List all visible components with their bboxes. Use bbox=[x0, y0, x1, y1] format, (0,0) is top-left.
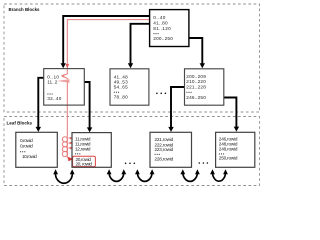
svg-text:210..220: 210..220 bbox=[186, 79, 206, 84]
branch block 2 bbox=[110, 69, 149, 105]
leaf block 4 bbox=[216, 132, 255, 167]
svg-text:223,rowid: 223,rowid bbox=[155, 147, 174, 152]
svg-text:0,rowid: 0,rowid bbox=[20, 138, 33, 143]
wire root to branch2 bbox=[131, 24, 150, 64]
dots between branch2 and branch3 bbox=[156, 93, 166, 95]
red search path root to branch1 bbox=[67, 20, 149, 65]
svg-text:12,rowid: 12,rowid bbox=[75, 146, 91, 151]
wire branch3 to leaf3 bbox=[171, 87, 185, 128]
svg-text:228,rowid: 228,rowid bbox=[155, 156, 174, 161]
red coil on leaf2 bbox=[62, 137, 67, 142]
svg-text:20, rowid: 20, rowid bbox=[76, 161, 93, 166]
svg-text:248,rowid: 248,rowid bbox=[219, 147, 238, 152]
root block bbox=[150, 10, 189, 47]
svg-text:81..120: 81..120 bbox=[153, 26, 171, 31]
wire branch1 to leaf2 bbox=[84, 82, 89, 128]
svg-text:Leaf Blocks: Leaf Blocks bbox=[7, 121, 33, 126]
svg-text:32..40: 32..40 bbox=[47, 96, 61, 101]
svg-text:10,rowid: 10,rowid bbox=[22, 154, 37, 159]
red row ticks on leaf2 bbox=[69, 138, 72, 148]
leaf block 1 bbox=[16, 132, 58, 167]
svg-text:0,rowid: 0,rowid bbox=[20, 144, 33, 149]
dots between leaf2 and leaf3 bbox=[125, 163, 135, 165]
svg-text:200..250: 200..250 bbox=[153, 36, 173, 41]
linked-list arc leaf1-leaf2 bbox=[56, 172, 73, 183]
svg-text:0..40: 0..40 bbox=[153, 15, 165, 20]
wire root to branch1 bbox=[63, 16, 149, 64]
branch block 1 bbox=[44, 69, 85, 106]
branch block 3 bbox=[185, 69, 224, 105]
svg-text:246..250: 246..250 bbox=[186, 95, 206, 100]
svg-text:11..2: 11..2 bbox=[47, 79, 57, 84]
wire branch1 to leaf1 bbox=[38, 78, 43, 128]
red highlight box on 20,rowid rows bbox=[73, 156, 96, 166]
linked-list arc leaf3-gap bbox=[183, 172, 198, 181]
red final arrow to 20,rowid bbox=[67, 157, 68, 158]
linked-list arc leaf2-gap bbox=[109, 172, 124, 181]
wire root to branch3 bbox=[189, 38, 202, 64]
svg-text:250,rowid: 250,rowid bbox=[219, 156, 238, 161]
leaf block 2 bbox=[72, 133, 111, 168]
linked-list arc gap-leaf4 bbox=[213, 172, 226, 181]
svg-text:200..209: 200..209 bbox=[186, 74, 206, 79]
svg-text:78..80: 78..80 bbox=[114, 94, 128, 99]
svg-text:54..65: 54..65 bbox=[114, 85, 128, 90]
svg-text:41..80: 41..80 bbox=[153, 21, 168, 26]
linked-list arc gap-leaf3 bbox=[137, 172, 152, 181]
svg-text:221..228: 221..228 bbox=[186, 85, 206, 90]
leaf block 3 bbox=[150, 132, 192, 167]
red path zigzag in branch1 bbox=[62, 69, 68, 79]
svg-text:Branch Blocks: Branch Blocks bbox=[9, 7, 40, 12]
branch section dashed border bbox=[4, 4, 260, 112]
red path branch1 down to leaf2 bbox=[66, 82, 68, 136]
wire branch3 to leaf4 bbox=[224, 98, 237, 128]
leaf section dashed border bbox=[4, 117, 260, 186]
dots between leaf3 and leaf4 bbox=[199, 162, 209, 164]
